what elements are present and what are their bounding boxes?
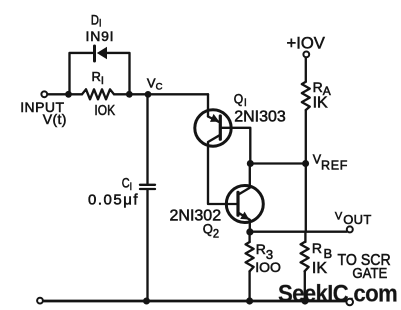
svg-text:IOO: IOO [255, 259, 281, 275]
svg-text:IN9I: IN9I [86, 28, 115, 44]
svg-text:IK: IK [313, 95, 328, 112]
svg-text:2NI302: 2NI302 [170, 208, 222, 225]
svg-text:SeekIC.com: SeekIC.com [278, 280, 397, 307]
svg-text:0.05μf: 0.05μf [88, 192, 139, 209]
svg-text:+IOV: +IOV [287, 33, 326, 52]
svg-text:IK: IK [312, 260, 327, 277]
svg-text:IOK: IOK [94, 102, 115, 119]
svg-text:V(t): V(t) [43, 111, 67, 127]
svg-text:2NI303: 2NI303 [234, 109, 286, 126]
svg-text:GATE: GATE [352, 264, 387, 281]
